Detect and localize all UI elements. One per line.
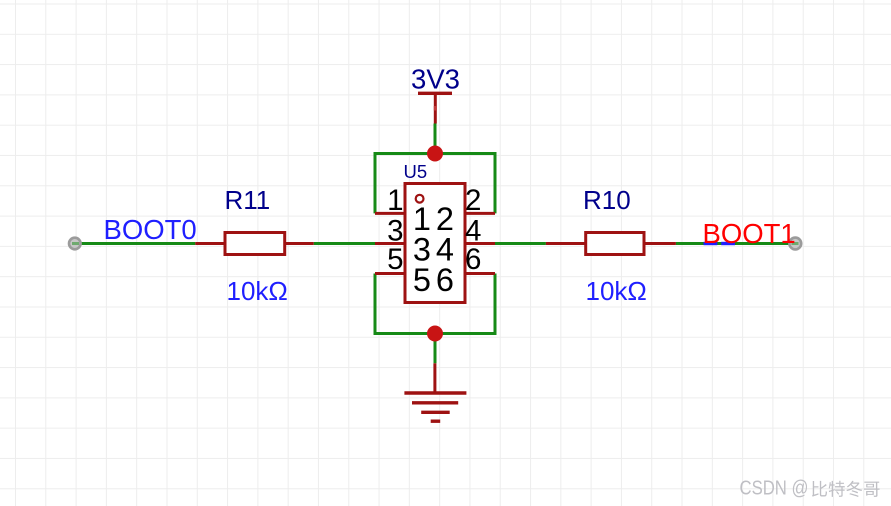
svg-text:BOOT0: BOOT0 <box>104 214 197 245</box>
svg-text:CSDN @: CSDN @ <box>740 477 809 500</box>
svg-text:5: 5 <box>387 243 403 276</box>
svg-text:6: 6 <box>465 243 481 276</box>
svg-text:BOOT1: BOOT1 <box>703 218 796 249</box>
svg-text:1: 1 <box>387 184 403 217</box>
svg-text:2: 2 <box>465 184 481 217</box>
svg-text:3V3: 3V3 <box>411 64 460 95</box>
svg-text:R11: R11 <box>225 185 271 215</box>
svg-text:U5: U5 <box>404 161 428 182</box>
svg-text:10kΩ: 10kΩ <box>586 276 647 306</box>
svg-text:10kΩ: 10kΩ <box>227 276 288 306</box>
svg-text:5: 5 <box>413 262 431 298</box>
svg-text:6: 6 <box>436 262 454 298</box>
svg-text:R10: R10 <box>583 185 631 215</box>
